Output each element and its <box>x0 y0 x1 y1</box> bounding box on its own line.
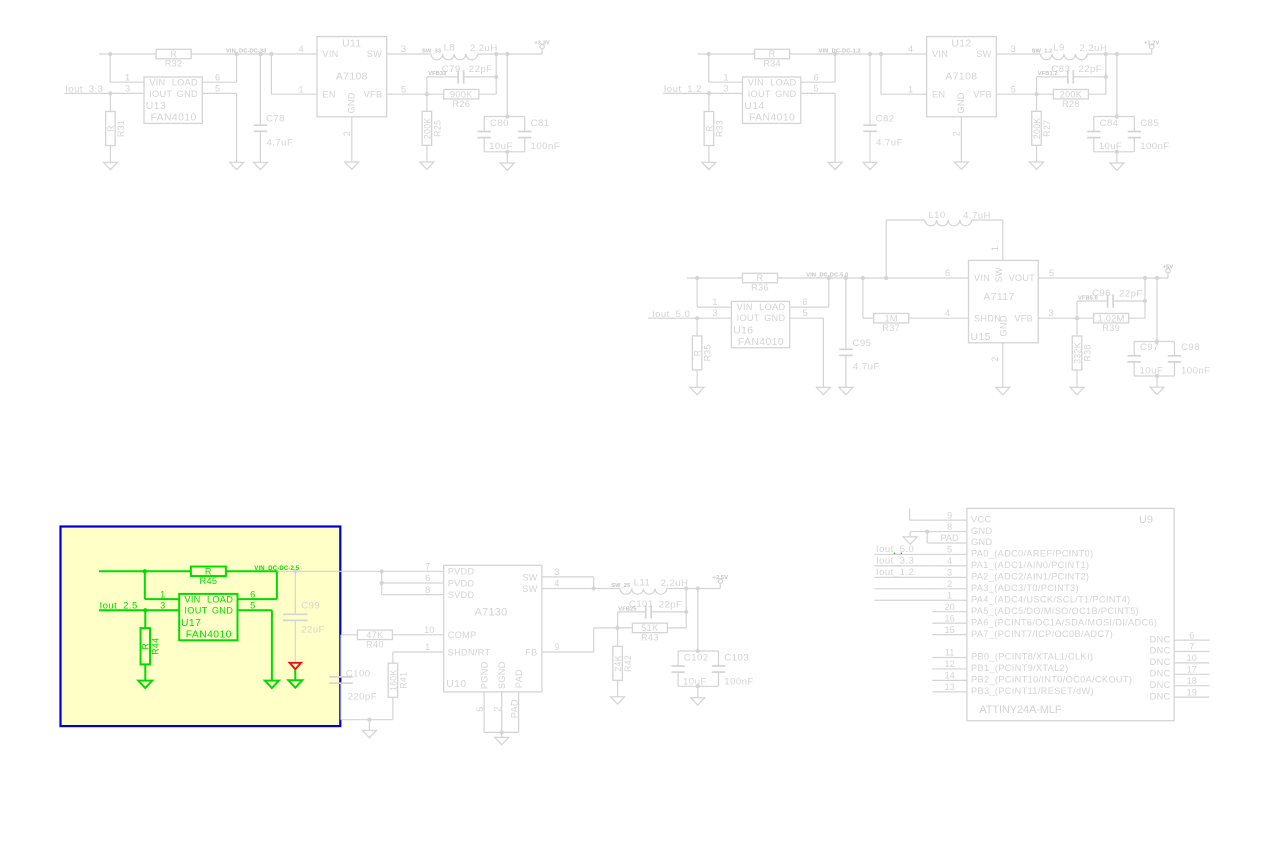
svg-text:PA5_(ADC5/DO/MISO/OC1B/PCINT5): PA5_(ADC5/DO/MISO/OC1B/PCINT5) <box>971 606 1139 616</box>
svg-text:C95: C95 <box>853 338 872 349</box>
wire to pin1 <box>109 54 111 82</box>
wire SW pins <box>542 576 594 578</box>
wire <box>478 53 542 55</box>
junction <box>1104 75 1108 79</box>
ground <box>420 162 434 169</box>
svg-text:R: R <box>106 125 116 132</box>
wire to pin1 <box>708 54 710 82</box>
junction <box>696 684 700 688</box>
wire <box>426 145 428 162</box>
wire <box>1036 145 1038 162</box>
output capacitors <box>1156 278 1158 342</box>
wire <box>909 532 911 537</box>
svg-text:VCC: VCC <box>971 514 991 524</box>
svg-text:DNC: DNC <box>1150 634 1171 644</box>
svg-text:9: 9 <box>554 642 559 652</box>
resistor R42 <box>613 646 623 680</box>
svg-text:3: 3 <box>1048 308 1053 318</box>
svg-text:PVDD: PVDD <box>448 567 475 577</box>
junction <box>500 730 504 734</box>
ground <box>230 162 244 169</box>
svg-text:4.7uF: 4.7uF <box>876 137 903 148</box>
svg-text:R28: R28 <box>1062 99 1080 109</box>
wire VOUT rail <box>1038 277 1168 279</box>
svg-text:SHDN: SHDN <box>974 313 1001 323</box>
pin 5 PA0 of U9 <box>932 553 967 555</box>
svg-text:DNC: DNC <box>1150 680 1171 690</box>
ground <box>816 387 830 394</box>
svg-text:18: 18 <box>1187 676 1197 686</box>
wire <box>426 94 428 111</box>
capacitor C99 <box>294 571 296 614</box>
svg-text:GND: GND <box>212 606 233 616</box>
svg-text:5: 5 <box>813 84 818 94</box>
svg-text:6: 6 <box>945 268 950 278</box>
junction <box>695 276 699 280</box>
junction <box>1115 52 1119 56</box>
resistor R41 <box>388 663 398 697</box>
wire <box>678 685 718 687</box>
IC U13 FAN4010 <box>144 77 202 123</box>
svg-text:6: 6 <box>1189 630 1194 640</box>
wire pin2 to gnd <box>1002 343 1004 388</box>
svg-text:3: 3 <box>723 84 728 94</box>
svg-text:Iout_1.2: Iout_1.2 <box>664 84 702 95</box>
svg-text:VIN: VIN <box>932 49 948 59</box>
ground <box>138 681 152 688</box>
wire COMP <box>392 634 443 636</box>
ground <box>253 162 267 169</box>
svg-text:VFB33: VFB33 <box>428 71 446 77</box>
wire <box>1036 94 1038 111</box>
wire VIN rail to U10 <box>278 570 444 572</box>
pin PAD GND of U9 <box>932 542 967 544</box>
wire pin5 to gnd <box>801 92 835 94</box>
svg-text:3: 3 <box>947 568 952 578</box>
svg-text:R45: R45 <box>200 576 218 586</box>
svg-text:Iout_5.0: Iout_5.0 <box>876 544 914 555</box>
svg-text:DNC: DNC <box>1150 657 1171 667</box>
resistor R45 <box>191 567 226 577</box>
junction <box>695 316 699 320</box>
junction <box>380 569 384 573</box>
junction <box>1115 150 1119 154</box>
pin 1 PA4 of U9 <box>932 599 967 601</box>
svg-text:DNC: DNC <box>1150 669 1171 679</box>
wire pin2 to gnd <box>960 117 962 162</box>
capacitor C82 <box>869 54 871 125</box>
junction <box>1155 374 1159 378</box>
wire VIN rail 5.0 <box>687 277 743 279</box>
svg-text:GND: GND <box>956 92 966 113</box>
resistor R40 <box>357 630 392 640</box>
inductor L11 <box>620 589 667 595</box>
svg-text:VFB5.0: VFB5.0 <box>1078 296 1098 302</box>
svg-text:GND: GND <box>775 89 796 99</box>
IC U12 A7108 <box>927 37 997 117</box>
svg-text:L10: L10 <box>928 210 945 221</box>
wire pin6 to rail <box>801 81 835 83</box>
svg-text:R35: R35 <box>703 344 713 361</box>
pin 16 PA6 of U9 <box>932 622 967 624</box>
svg-text:22pF: 22pF <box>1078 64 1102 75</box>
svg-text:22pF: 22pF <box>1119 288 1143 299</box>
wire <box>1076 318 1078 336</box>
svg-text:R: R <box>141 643 151 650</box>
junction <box>861 276 865 280</box>
junction <box>1104 52 1108 56</box>
wire SHDN <box>393 651 444 653</box>
junction <box>1034 92 1038 96</box>
wire <box>708 93 710 111</box>
svg-text:VFB: VFB <box>973 90 992 100</box>
wire VFB <box>387 93 444 95</box>
svg-text:6: 6 <box>425 573 430 583</box>
junction <box>425 92 429 96</box>
resistor R33 <box>704 112 714 146</box>
junction <box>696 586 700 590</box>
junction <box>1143 276 1147 280</box>
junction <box>684 586 688 590</box>
pin 2 PA3 of U9 <box>932 588 967 590</box>
svg-text:10: 10 <box>424 625 434 635</box>
resistor R31 <box>106 112 116 146</box>
junction <box>616 626 620 630</box>
svg-text:22pF: 22pF <box>659 600 683 611</box>
svg-text:EN: EN <box>932 90 945 100</box>
ground <box>690 387 704 394</box>
wire VIN rail (selected) <box>99 570 191 572</box>
pin 3 PA2 of U9 <box>932 576 967 578</box>
svg-text:4: 4 <box>908 44 913 54</box>
wire PAD <box>926 532 928 543</box>
svg-text:PB3_(PCINT11/RESET/dW): PB3_(PCINT11/RESET/dW) <box>971 686 1094 696</box>
svg-text:VIN: VIN <box>322 49 338 59</box>
svg-text:GND: GND <box>347 92 357 113</box>
svg-text:U11: U11 <box>342 39 362 50</box>
junction <box>505 52 509 56</box>
svg-text:GND: GND <box>177 89 198 99</box>
junction <box>108 91 112 95</box>
IC U10 A7130 <box>444 565 542 692</box>
ground <box>103 162 117 169</box>
svg-text:3: 3 <box>401 44 406 54</box>
wire pin6 to rail <box>790 306 829 308</box>
junction <box>505 114 509 118</box>
svg-text:10uF: 10uF <box>1140 366 1164 377</box>
svg-text:R25: R25 <box>432 120 442 137</box>
junction <box>108 52 112 56</box>
svg-text:5: 5 <box>250 601 255 611</box>
wire <box>109 146 111 163</box>
svg-text:SW_33: SW_33 <box>422 48 441 54</box>
svg-text:1: 1 <box>908 84 913 94</box>
svg-text:100nF: 100nF <box>531 141 560 152</box>
wire pin6 to rail <box>202 81 236 83</box>
capacitor C81 <box>524 117 526 132</box>
junction <box>592 586 596 590</box>
svg-text:R: R <box>693 350 703 357</box>
ground <box>702 162 716 169</box>
junction <box>380 581 384 585</box>
svg-text:U9: U9 <box>1139 514 1153 526</box>
wire <box>617 680 619 696</box>
svg-text:VFB: VFB <box>364 90 383 100</box>
svg-text:2: 2 <box>990 356 1000 361</box>
svg-text:PAD: PAD <box>940 533 959 543</box>
svg-text:C81: C81 <box>531 118 550 129</box>
svg-text:U12: U12 <box>951 39 971 50</box>
junction <box>707 91 711 95</box>
pin 18 DNC of U9 <box>1174 685 1209 687</box>
svg-text:SHDN/RT: SHDN/RT <box>448 647 491 657</box>
net Iout_3.3 <box>64 92 144 94</box>
svg-text:5: 5 <box>1011 84 1016 94</box>
svg-text:FAN4010: FAN4010 <box>738 337 784 348</box>
ground <box>839 387 853 394</box>
svg-text:1: 1 <box>125 72 130 82</box>
resistor R26 <box>444 89 479 99</box>
svg-text:FAN4010: FAN4010 <box>186 630 232 641</box>
wire <box>667 627 686 629</box>
output capacitors <box>506 54 508 117</box>
svg-text:U13: U13 <box>146 101 166 112</box>
svg-text:C102: C102 <box>684 653 709 664</box>
wire <box>368 720 370 731</box>
wire pin5 to gnd (selected) <box>238 609 272 611</box>
svg-text:L8: L8 <box>444 42 456 53</box>
svg-text:VOUT: VOUT <box>1009 273 1036 283</box>
svg-text:A7108: A7108 <box>336 71 368 82</box>
resistor R38 <box>1072 336 1082 370</box>
svg-text:2: 2 <box>951 131 961 136</box>
wire (selected) <box>144 610 146 628</box>
svg-text:U10: U10 <box>446 679 466 690</box>
svg-text:1: 1 <box>425 642 430 652</box>
svg-text:VIN_DC-DC-5.0: VIN_DC-DC-5.0 <box>806 273 848 279</box>
svg-text:R38: R38 <box>1082 344 1092 361</box>
svg-text:332K: 332K <box>1072 342 1082 364</box>
capacitor C84 <box>1093 117 1095 132</box>
svg-text:1: 1 <box>723 72 728 82</box>
svg-text:200K: 200K <box>1032 117 1042 139</box>
svg-text:A7108: A7108 <box>945 71 977 82</box>
ground <box>996 387 1010 394</box>
svg-text:R27: R27 <box>1042 120 1052 137</box>
svg-text:9: 9 <box>947 510 952 520</box>
svg-text:R34: R34 <box>763 59 781 69</box>
svg-text:C82: C82 <box>876 114 895 125</box>
ground <box>1070 387 1084 394</box>
resistor R32 <box>156 49 191 59</box>
svg-text:U16: U16 <box>733 326 753 337</box>
resistor R36 <box>743 273 778 283</box>
svg-text:GND: GND <box>971 526 992 536</box>
svg-text:R: R <box>704 125 714 132</box>
svg-text:1: 1 <box>990 246 1000 251</box>
junction <box>143 608 147 612</box>
pin 8 GND of U9 <box>932 531 967 533</box>
wire EN <box>270 54 272 94</box>
svg-text:4.7uF: 4.7uF <box>267 137 294 148</box>
resistor R44 <box>141 628 151 664</box>
net Iout_3.3 <box>874 565 932 567</box>
svg-text:10: 10 <box>1187 653 1197 663</box>
svg-text:4: 4 <box>947 556 952 566</box>
svg-text:8: 8 <box>425 585 430 595</box>
svg-text:C85: C85 <box>1140 118 1159 129</box>
svg-text:SW: SW <box>976 49 991 59</box>
svg-text:20: 20 <box>944 602 954 612</box>
resistor R27 <box>1032 111 1042 145</box>
ground <box>954 162 968 169</box>
svg-text:1: 1 <box>712 297 717 307</box>
svg-text:13: 13 <box>944 682 954 692</box>
net Iout_5.0 <box>648 317 731 319</box>
wire SHDN <box>862 278 864 318</box>
junction <box>696 649 700 653</box>
svg-text:R44: R44 <box>151 638 161 655</box>
svg-text:Iout_1.2: Iout_1.2 <box>876 567 914 578</box>
pin 14 PB2 of U9 <box>932 679 967 681</box>
wire to pin1 U17 (selected) <box>144 571 146 599</box>
svg-text:12: 12 <box>944 659 954 669</box>
svg-text:L9: L9 <box>1053 42 1065 53</box>
svg-text:PA1_(ADC1/AIN0/PCINT1): PA1_(ADC1/AIN0/PCINT1) <box>971 560 1089 570</box>
wire <box>341 634 357 636</box>
svg-text:PB2_(PCINT10/INT0/OC0A/CKOUT): PB2_(PCINT10/INT0/OC0A/CKOUT) <box>971 675 1132 685</box>
svg-text:PVDD: PVDD <box>448 578 475 588</box>
resistor R34 <box>755 49 790 59</box>
ground <box>265 681 279 688</box>
svg-text:4: 4 <box>298 44 303 54</box>
svg-text:100nF: 100nF <box>1181 366 1210 377</box>
wire <box>1087 53 1152 55</box>
wire SW <box>387 53 431 55</box>
svg-text:6: 6 <box>250 589 255 599</box>
svg-text:FAN4010: FAN4010 <box>749 113 795 124</box>
wire to pin1 U16 <box>696 278 698 307</box>
wire pin6 to rail (selected) <box>238 598 277 600</box>
svg-text:Iout_3.3: Iout_3.3 <box>65 84 103 95</box>
svg-text:19: 19 <box>1187 687 1197 697</box>
svg-text:VFB25: VFB25 <box>618 606 636 612</box>
svg-text:C97: C97 <box>1140 342 1159 353</box>
wire <box>874 588 932 590</box>
junction <box>1115 114 1119 118</box>
ground <box>1110 163 1124 170</box>
svg-text:PAD: PAD <box>514 669 524 688</box>
svg-text:4: 4 <box>554 579 559 589</box>
resistor R25 <box>422 111 432 145</box>
junction <box>367 718 371 722</box>
svg-text:7: 7 <box>425 562 430 572</box>
svg-text:C103: C103 <box>724 653 749 664</box>
resistor R43 <box>632 623 667 633</box>
wire VCC <box>910 519 933 521</box>
svg-text:5: 5 <box>401 84 406 94</box>
capacitor C98 <box>1174 342 1176 356</box>
svg-text:EN: EN <box>322 90 335 100</box>
svg-text:GND: GND <box>764 313 785 323</box>
svg-text:IOUT: IOUT <box>184 606 207 616</box>
svg-text:100nF: 100nF <box>724 676 753 687</box>
net Iout_5.0 <box>874 553 932 555</box>
pin 13 PB3 of U9 <box>932 691 967 693</box>
svg-text:R42: R42 <box>623 655 633 672</box>
wire <box>708 146 710 163</box>
svg-text:SW: SW <box>522 572 537 582</box>
junction <box>684 610 688 614</box>
wire (selected) <box>294 670 296 680</box>
pin 9 VCC of U9 <box>932 519 967 521</box>
net Iout_1.2 <box>874 576 932 578</box>
pin 17 DNC of U9 <box>1174 673 1209 675</box>
svg-text:SW_25: SW_25 <box>611 583 630 589</box>
wire SW net <box>542 588 620 590</box>
highlight selection box <box>61 527 341 727</box>
svg-text:LOAD: LOAD <box>172 78 198 88</box>
pin 12 PB1 of U9 <box>932 668 967 670</box>
junction <box>494 52 498 56</box>
svg-text:VIN_DC-DC-1.2: VIN_DC-DC-1.2 <box>819 48 861 54</box>
wire VIN rail <box>698 53 755 55</box>
svg-text:LOAD: LOAD <box>770 78 796 88</box>
capacitor C78 <box>259 54 261 125</box>
svg-text:Iout_2.5: Iout_2.5 <box>100 601 138 612</box>
svg-text:C99: C99 <box>301 600 320 611</box>
svg-text:4.7uF: 4.7uF <box>853 362 880 373</box>
junction <box>884 276 888 280</box>
svg-text:R41: R41 <box>398 672 408 689</box>
svg-text:R26: R26 <box>452 99 470 109</box>
capacitor C103 <box>718 651 720 666</box>
wire pin5 to gnd <box>790 317 824 319</box>
svg-text:R37: R37 <box>882 323 900 333</box>
svg-text:SW: SW <box>367 49 382 59</box>
svg-text:17: 17 <box>1187 665 1197 675</box>
wire <box>381 571 383 594</box>
junction <box>879 52 883 56</box>
svg-text:5: 5 <box>1049 268 1054 278</box>
svg-text:24K: 24K <box>613 655 623 672</box>
IC U15 A7117 <box>969 260 1039 342</box>
junction <box>827 276 831 280</box>
svg-text:1: 1 <box>947 590 952 600</box>
junction <box>1155 339 1159 343</box>
capacitor C101 <box>617 612 619 628</box>
svg-text:5: 5 <box>802 308 807 318</box>
svg-text:A7130: A7130 <box>475 606 508 618</box>
wire pin2 to gnd <box>351 117 353 162</box>
capacitor C102 <box>677 651 679 666</box>
svg-text:3: 3 <box>712 308 717 318</box>
svg-text:VFB: VFB <box>1014 313 1033 323</box>
svg-text:FAN4010: FAN4010 <box>151 113 197 124</box>
IC U17 FAN4010 <box>179 594 237 640</box>
svg-text:2.2uH: 2.2uH <box>1079 43 1107 54</box>
svg-text:2: 2 <box>342 131 352 136</box>
svg-text:ATTINY24A-MLF: ATTINY24A-MLF <box>979 704 1062 716</box>
ground <box>828 162 842 169</box>
wire <box>909 317 969 319</box>
svg-text:SW: SW <box>994 267 1004 282</box>
ground <box>362 730 376 737</box>
svg-text:SGND: SGND <box>497 661 507 689</box>
svg-text:R33: R33 <box>714 120 724 137</box>
pin 19 DNC of U9 <box>1174 696 1209 698</box>
power symbol +3.3V <box>541 49 543 54</box>
